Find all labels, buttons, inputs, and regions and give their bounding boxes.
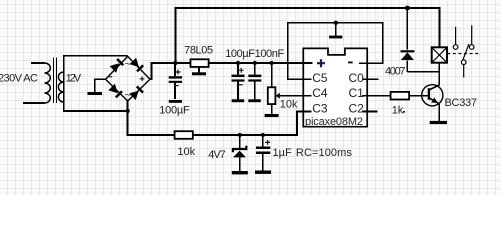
svg-text:C5: C5 [312, 71, 328, 85]
bridge diode D1 (left-top) [110, 63, 120, 72]
svg-text:BC337: BC337 [445, 97, 478, 109]
wire capacitor 100nF stubs [254, 63, 256, 99]
chip minus pin mark [348, 61, 353, 63]
resistor R3 10k pot box (vertical) [268, 87, 276, 104]
capacitor C2 100uF plates [232, 75, 245, 78]
speck after 1k label [403, 111, 405, 113]
wire capacitor 100uF stubs [237, 63, 239, 99]
wire diode 4007 stubs and link to relay [407, 8, 439, 72]
svg-text:C0: C0 [349, 71, 365, 85]
svg-text:1µF: 1µF [273, 147, 292, 159]
bridge minus terminal mark [108, 76, 112, 78]
switch moving arm [463, 44, 469, 60]
junction node +5V / 100uF [236, 61, 240, 65]
svg-text:4V7: 4V7 [208, 149, 226, 161]
bridge rectifier diamond [106, 56, 151, 101]
junction node 0V rail / ground [334, 21, 338, 25]
switch contact B lead [471, 25, 473, 44]
transistor Q1 BC337 circle [422, 85, 443, 106]
wire 1uF cap stubs [262, 135, 264, 171]
transistor Q1 collector lead [429, 85, 440, 90]
wire 230V AC top lead [31, 62, 44, 64]
switch pole lead [463, 65, 465, 78]
ground symbol zener [232, 171, 248, 174]
capacitor C3 100nF plates [248, 75, 261, 78]
transformer T1 primary coil [45, 63, 51, 103]
svg-text:C1: C1 [349, 86, 365, 100]
svg-text:~: ~ [125, 90, 131, 102]
plus mark capacitor C4 1uF [265, 140, 270, 145]
capacitor C4 1uF plates [256, 147, 270, 150]
svg-text:100µF: 100µF [159, 105, 190, 117]
ground symbol transistor emitter [430, 121, 447, 124]
wire main rail bridge+ to regulator to chip + pin [149, 63, 313, 79]
svg-text:4007: 4007 [385, 66, 406, 78]
zener D5 4V7 triangle [233, 151, 246, 158]
wire pot stubs [271, 63, 273, 114]
svg-text:100µF100nF: 100µF100nF [225, 48, 284, 60]
transistor Q1 base bar [428, 88, 430, 100]
svg-text:C4: C4 [312, 86, 328, 100]
transistor Q1 emitter arrow [431, 97, 438, 103]
bridge plus terminal mark [140, 77, 145, 82]
svg-text:picaxe08M2: picaxe08M2 [305, 116, 363, 128]
svg-text:~: ~ [125, 59, 131, 71]
resistor R2 10k box (bottom) [175, 131, 193, 139]
junction node +5V / pot [270, 61, 274, 65]
switch contact B terminal [469, 45, 474, 50]
minus mark capacitor C2 [238, 84, 242, 86]
wire transformer secondary loop [64, 56, 128, 111]
relay K1 coil box with X [432, 47, 447, 62]
resistor R1 1k box [391, 92, 410, 100]
wire 230V AC bottom lead [23, 102, 45, 104]
svg-text:RC=100ms: RC=100ms [296, 147, 353, 159]
regulator U2 78L05 box [191, 59, 209, 67]
svg-text:12V: 12V [66, 73, 82, 85]
svg-text:C3: C3 [312, 102, 328, 116]
junction node RC rail / 1uF [261, 133, 265, 137]
junction node RC rail / zener [238, 133, 242, 137]
svg-text:10k: 10k [177, 146, 195, 158]
wire C2 stub [362, 111, 377, 113]
ground symbol regulator [192, 72, 206, 75]
svg-text:10k: 10k [280, 98, 298, 110]
junction node +5V / 100nF [253, 61, 257, 65]
svg-text:230V AC: 230V AC [0, 73, 38, 85]
ground symbol 1uF [255, 171, 271, 174]
bridge diode D2 (top-right) [130, 58, 140, 67]
ground symbol cap 100nF [248, 99, 260, 102]
relay actuation dashed link [447, 53, 481, 55]
wire top rail +12V [175, 8, 439, 63]
wire regulator ground pin [198, 61, 200, 72]
wire C0 stub [362, 78, 378, 80]
switch contact A lead [455, 27, 457, 45]
wire 0V loop C5 to ground rail to chip - pin [288, 23, 383, 79]
wire ground stub on 0V rail [335, 23, 337, 36]
wire zener stubs [239, 135, 241, 171]
switch pole terminal [461, 60, 466, 65]
transistor Q1 emitter lead [429, 98, 440, 104]
diode D6 4007 triangle [401, 52, 414, 60]
svg-text:C2: C2 [349, 102, 365, 116]
bridge diode D3 (left-bottom) [108, 84, 118, 94]
wire relay to transistor collector [438, 63, 440, 85]
wire bridge minus to ground [95, 79, 106, 92]
transformer T1 core [54, 58, 57, 104]
junction node top rail / diode 4007 [405, 6, 410, 11]
IC U1 picaxe08M2 body [303, 48, 367, 126]
wire C4 pin to pot wiper [280, 95, 312, 97]
plus mark capacitor C1 [176, 70, 181, 75]
wire capacitor C_in stubs [174, 63, 176, 99]
plus mark capacitor C2 [239, 68, 244, 73]
svg-text:78L05: 78L05 [184, 44, 213, 56]
junction node secondary / bridge AC [126, 109, 130, 113]
junction node V+ rail / input cap [173, 61, 177, 65]
pot wiper arrow [276, 93, 280, 99]
diode D6 4007 cathode bar [401, 50, 415, 52]
chip plus pin mark [317, 59, 325, 67]
zener D5 4V7 cathode bar [233, 146, 246, 153]
wire bottom rail C3 to RC network to bridge bottom [128, 100, 312, 136]
bridge diode D4 (bottom-right) [129, 91, 138, 101]
minus mark capacitor C1 [174, 85, 178, 87]
capacitor C1 100uF plates [169, 76, 182, 78]
wire transistor emitter to ground [438, 104, 440, 121]
svg-text:1k: 1k [392, 105, 404, 117]
ground symbol cap C_in [169, 100, 182, 103]
wire C1 pin to 1k resistor [362, 95, 429, 97]
ground symbol 0V rail [329, 36, 342, 39]
transformer T1 secondary coil arcs [58, 72, 63, 102]
ground symbol bridge minus [88, 92, 103, 95]
ground symbol cap 100uF [232, 99, 245, 102]
switch contact A terminal [453, 45, 458, 50]
ground symbol pot [265, 114, 279, 117]
